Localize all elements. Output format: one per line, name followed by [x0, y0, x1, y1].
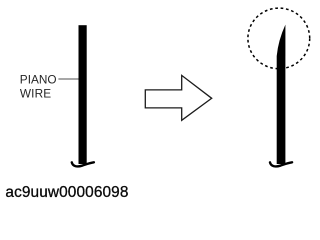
- piano wire (right, sharpened tip): [277, 25, 286, 164]
- leader line: [58, 78, 79, 80]
- left wire base squiggle: [72, 162, 94, 166]
- svg-text:WIRE: WIRE: [20, 87, 51, 101]
- arrow: [145, 75, 211, 120]
- right wire base squiggle: [270, 162, 292, 166]
- dashed circle: [248, 8, 310, 69]
- svg-text:ac9uuw00006098: ac9uuw00006098: [5, 184, 128, 201]
- label PIANO WIRE: [20, 73, 57, 101]
- piano wire (left): [79, 25, 87, 164]
- svg-text:PIANO: PIANO: [20, 73, 57, 87]
